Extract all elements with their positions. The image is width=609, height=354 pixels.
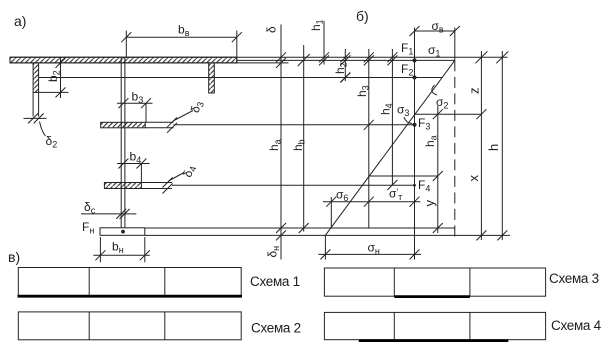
dimension h4 (x=392.4) — [387, 49, 397, 190]
projection line F2 level — [39, 77, 443, 79]
svg-text:Схема 4: Схема 4 — [551, 318, 602, 333]
projection line F4 level — [172, 184, 415, 186]
sigma6 / sigma_t dimension line — [323, 197, 421, 228]
dimension delta_c — [81, 209, 136, 219]
sigma_n dimension — [318, 235, 421, 259]
top flange — [10, 57, 237, 63]
sigma_t top line — [369, 175, 437, 177]
web (double lines) — [121, 58, 125, 228]
dashed line (x=454.8) — [454, 60, 456, 241]
svg-text:y: y — [422, 200, 437, 207]
svg-text:Схема 2: Схема 2 — [251, 321, 301, 336]
stress diagram diagonal — [325, 60, 455, 235]
tick at h2 line on F2 level — [340, 73, 350, 83]
dimension b_v — [121, 31, 242, 63]
svg-text:б): б) — [356, 8, 369, 24]
y / h_a dimension line (x=437.8) — [433, 106, 443, 233]
dimension line delta / h_a / delta_n (x=281) — [276, 25, 286, 260]
svg-text:в): в) — [8, 249, 20, 265]
dimension delta2 — [24, 92, 47, 136]
F line (x=414.5) — [414, 28, 416, 260]
dimension delta3 — [167, 111, 193, 133]
F_n dot — [121, 230, 125, 234]
svg-text:Схема 1: Схема 1 — [250, 274, 300, 289]
svg-text:а): а) — [14, 13, 26, 29]
dimension delta4 — [163, 173, 185, 194]
F4 dot — [413, 184, 416, 187]
F2 dot — [413, 76, 417, 80]
scheme 2 box — [18, 312, 241, 340]
plate b4 (hatched) — [104, 183, 172, 189]
dimension h1 (x=324) — [319, 21, 329, 65]
dimension b2 — [39, 57, 69, 98]
scheme 4 box — [324, 312, 545, 340]
bottom flange bottom projection line — [145, 234, 510, 236]
dimension b4 — [117, 159, 150, 183]
projection line F3 level — [174, 124, 415, 126]
bottom flange — [100, 228, 145, 236]
left rib (hatched) — [33, 63, 39, 92]
F1 dot — [413, 58, 417, 62]
svg-text:δ: δ — [265, 26, 279, 33]
dimension b_n — [93, 237, 150, 262]
dimension line h_b (x=303.7) — [298, 45, 310, 233]
h dimension line (x=502.3) — [496, 51, 508, 240]
F3 dot — [413, 123, 417, 127]
dimension b3 — [117, 98, 153, 122]
dimension sigma_v — [410, 26, 460, 60]
central rib (hatched) — [209, 63, 215, 93]
neutral level line (z bottom) — [415, 113, 482, 115]
bottom flange top projection line — [145, 227, 455, 229]
plate b3 (hatched) — [101, 122, 174, 128]
svg-text:h: h — [486, 144, 501, 151]
svg-text:х: х — [466, 175, 481, 182]
dimension h3 (x=368.8) — [364, 49, 374, 228]
svg-text:Схема 3: Схема 3 — [549, 271, 599, 286]
flange mid projection line (F1 level) — [237, 59, 455, 61]
scheme 3 box — [324, 268, 545, 297]
scheme 1 box — [18, 268, 243, 297]
dimension h2 (x=345.3) — [340, 49, 350, 83]
svg-text:z: z — [467, 88, 482, 95]
flange bottom projection line — [10, 62, 289, 64]
flange top projection line — [10, 56, 508, 58]
z / x dimension line (x=481.4) — [475, 51, 487, 240]
